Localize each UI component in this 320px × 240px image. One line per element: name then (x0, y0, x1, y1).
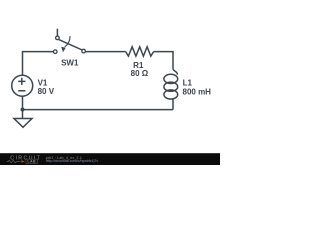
svg-text:http://circuitlab.com/c/hywbfz: http://circuitlab.com/c/hywbfz1j7v (46, 159, 99, 163)
svg-text:80 Ω: 80 Ω (131, 69, 149, 78)
svg-text:SW1: SW1 (61, 58, 79, 67)
svg-text:800 mH: 800 mH (183, 87, 212, 96)
svg-text:L1: L1 (183, 78, 193, 87)
svg-text:LAB: LAB (27, 160, 36, 164)
svg-text:80 V: 80 V (38, 87, 55, 96)
